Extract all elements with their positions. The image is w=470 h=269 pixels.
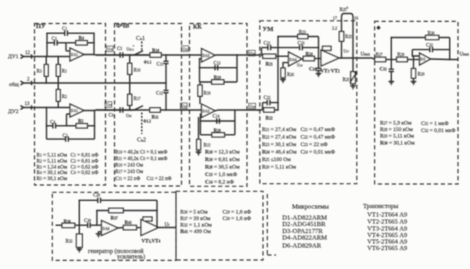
input DU1 [8,51,32,60]
ground DA5 plus input [96,232,102,237]
svg-text:12: 12 [25,51,31,56]
wire ch2 entry [257,103,263,110]
svg-text:U17: U17 [344,50,350,54]
svg-text:VT1-2Т664 А9: VT1-2Т664 А9 [367,212,407,219]
svg-text:DA6: DA6 [103,227,110,231]
wire DU2 rail [24,107,71,109]
svg-text:КК: КК [193,25,202,31]
resistor R30 [391,32,449,60]
svg-text:13: 13 [25,102,31,107]
input obshch [9,78,32,89]
resistor R10 [150,49,161,57]
capacitor C14 [213,115,221,124]
svg-text:+: + [133,44,135,48]
block box PU [35,23,106,185]
capacitor C24 [309,59,321,74]
svg-text:VT6-2Т665 А9: VT6-2Т665 А9 [367,245,407,252]
F values list [380,120,456,146]
resistor R3 [37,57,49,84]
resistor R41 [123,221,141,230]
block box UM [260,21,357,184]
transistor pair VT1 VT2 buffer [321,46,340,74]
wire summing column [278,37,319,111]
UM values list [262,127,336,171]
block box generator [52,192,176,260]
svg-text:U24: U24 [250,105,256,109]
node U24 label [249,103,256,109]
generator values list [180,210,252,236]
input DU2 [8,102,32,115]
svg-text:U16: U16 [106,103,112,107]
transistor pair VT3 VT4 buffer [141,217,160,245]
op-amp DA3.1 [202,49,216,63]
wire feedback verticals ch1 [47,33,94,56]
resistor R21 [263,54,289,67]
parts list partial border [267,194,276,255]
node U15 label [106,46,113,52]
resistor R18 [198,82,211,104]
svg-text:VT2-2Т665 А9: VT2-2Т665 А9 [367,219,407,226]
resistor R4 [76,36,94,45]
capacitor C5 [96,47,150,58]
wire A3.1 output [215,54,260,56]
control net Ca1 [136,36,145,52]
svg-text:ФЧВ: ФЧВ [116,23,129,29]
capacitor C22 [263,96,279,105]
block box generator values [176,191,263,260]
PU values list [37,153,99,183]
trimmer R25 [343,72,357,86]
ground R26 [280,80,286,83]
ground R29 [411,82,417,85]
resistor R1 [56,57,67,84]
op-amp DA5 [102,221,119,236]
capacitor C11 [157,55,169,83]
wire pin16 column [352,17,354,72]
microcircuits list [282,204,329,250]
svg-text:D4-AD822ARM: D4-AD822ARM [282,235,327,242]
resistor R16 [128,55,141,83]
svg-text:Ф1.2: Ф1.2 [143,119,151,123]
ground C31 [389,82,395,85]
svg-text:U22: U22 [181,105,187,109]
svg-text:U21: U21 [183,47,189,51]
node U16 label [105,102,112,108]
svg-text:ДУ2: ДУ2 [8,109,19,115]
svg-text:17: 17 [333,16,337,21]
capacitor C6 [96,107,134,118]
wire DU1 rail [24,56,71,58]
svg-text:ПУ: ПУ [36,23,46,30]
resistor R5 [76,120,94,129]
op-amp DA3.2 [202,104,216,118]
svg-text:U26: U26 [126,114,132,118]
op-amp DA6 [420,53,431,65]
capacitor C4 [47,121,77,129]
capacitor C29 feedback [79,194,157,226]
wire DA4 output [302,58,303,61]
svg-text:D2-ADG451BR: D2-ADG451BR [282,221,326,228]
svg-text:R5 = 30,1 кОм: R5 = 30,1 кОм [37,176,68,182]
resistor R19 [212,76,224,84]
resistor R25 vertical [332,17,352,41]
wire ch1 after R10 [161,54,201,56]
capacitor C3 [47,37,76,46]
KK values list [205,150,240,186]
wire ch1 entry column [261,48,263,57]
wire gen input [56,224,63,226]
wire feedback verticals ch2 [47,108,95,140]
block box F [375,21,458,184]
svg-text:общ: общ [9,81,20,88]
svg-text:U23: U23 [249,52,255,56]
svg-text:DA1: DA1 [71,109,78,113]
node U17 [342,41,350,58]
op-amp DA4 [289,52,303,66]
ground KK [196,152,202,155]
wire obshch rail [24,82,167,84]
wire buffer output [339,57,357,59]
svg-text:DA4: DA4 [290,58,297,62]
transistors list [363,203,407,252]
block box KK [190,24,248,187]
resistor R11 [150,108,161,121]
FCHV values list [115,151,171,183]
capacitor C12 [156,83,169,110]
resistor R23 [278,31,319,39]
resistor R37 feedback [97,208,157,225]
svg-text:DA3: DA3 [203,110,210,114]
ground C24 [316,74,322,77]
svg-text:U14: U14 [297,64,303,68]
svg-text:16: 16 [354,16,358,21]
svg-text:DA1: DA1 [71,53,78,57]
wire A3.2 output [215,109,260,112]
resistor R32 [66,225,83,249]
resistor R22 [264,108,278,122]
svg-text:ДУ1: ДУ1 [8,54,19,60]
switch F1.2 [133,106,151,124]
svg-text:VT3,VT4: VT3,VT4 [142,240,161,245]
capacitor C13 [214,62,221,71]
wire gen feedback vertical [156,200,158,227]
node U23 label [248,50,255,56]
svg-text:U15: U15 [107,48,113,52]
resistor R24 [303,52,321,60]
node U22 label [180,103,187,109]
svg-text:Транзисторы: Транзисторы [363,203,399,210]
node U21 label [182,46,189,52]
op-amp DA1.2 [70,104,84,117]
external resistor R25n [340,6,354,18]
wire feedback ch2 KK [200,110,235,135]
resistor R29 [411,56,424,82]
svg-text:Микросхемы: Микросхемы [292,204,329,211]
svg-text:УМ: УМ [263,26,274,33]
resistor R28 [397,53,420,62]
svg-text:D6-AD829AR: D6-AD829AR [282,243,321,250]
ground R32 [77,249,83,252]
ground trimmer [350,86,356,89]
capacitor C30 [84,219,102,228]
resistor R20 [212,129,225,137]
svg-text:DA3: DA3 [203,54,210,58]
wire F feedback verticals [412,38,458,60]
resistor R27 [375,53,397,62]
control net Ca2 [137,113,146,144]
wire F input [357,58,375,60]
wire DA5 out [118,227,123,229]
capacitor C32 [412,44,449,53]
capacitor C31 [380,60,394,82]
wire ch2 after R11 [160,109,201,111]
capacitor C2 [47,134,95,142]
resistor R17 [128,83,141,110]
resistor R15 to ground [197,117,211,152]
svg-text:усилитель): усилитель) [117,254,145,261]
svg-text:Ф1.1: Ф1.1 [144,61,152,65]
svg-text:U22.1: U22.1 [127,48,135,52]
wire A1 output [84,54,150,57]
capacitor C23 [278,42,319,51]
op-amp DA1.1 [70,48,84,61]
block box FCHV [115,23,182,186]
resistor R36 [62,220,88,228]
wire gen output [159,227,177,229]
svg-text:VT1·VT2: VT1·VT2 [321,70,340,75]
capacitor C21 [262,42,279,51]
capacitor C1 [47,27,94,36]
switch F1.1 [133,51,151,65]
wire A2 output [84,109,150,112]
resistor R26 [281,63,294,80]
wire feedback ch1 KK [200,55,238,82]
svg-text:DA: DA [420,58,426,62]
resistor R2 [56,83,67,108]
